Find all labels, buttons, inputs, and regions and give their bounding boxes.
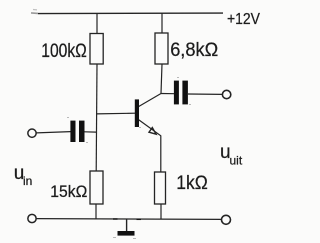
svg-text:1kΩ: 1kΩ xyxy=(176,172,208,194)
svg-text:+12V: +12V xyxy=(227,11,260,28)
svg-text:in: in xyxy=(23,174,32,188)
svg-text:6,8kΩ: 6,8kΩ xyxy=(170,40,218,61)
svg-text:15kΩ: 15kΩ xyxy=(50,182,87,201)
svg-text:uit: uit xyxy=(230,153,243,167)
svg-text:100kΩ: 100kΩ xyxy=(41,41,87,62)
